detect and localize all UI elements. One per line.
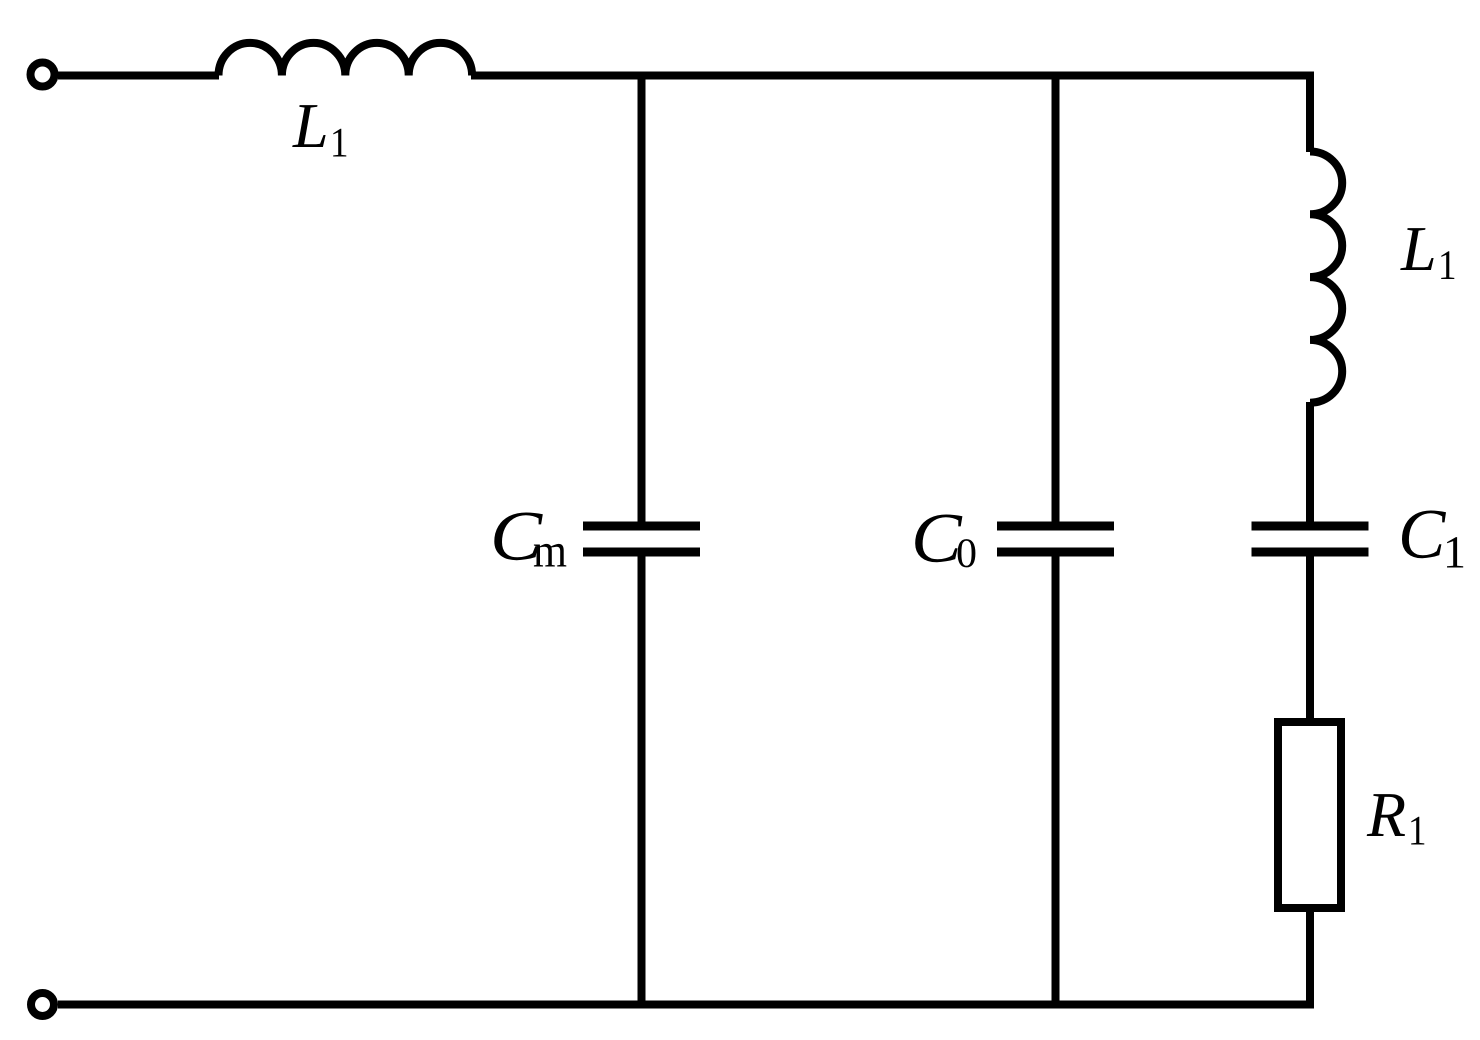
- inductor L1 (right, vertical): [1310, 152, 1342, 403]
- wire right branch lower: [1306, 908, 1314, 1008]
- wire right branch mid1: [1306, 402, 1314, 526]
- label C0: [915, 515, 962, 563]
- wire top-left segment: [58, 72, 219, 80]
- label L1 (right): [1400, 228, 1433, 270]
- resistor R1: [1278, 722, 1341, 908]
- wire right branch mid2: [1306, 552, 1314, 722]
- terminal bottom-left: [31, 993, 54, 1016]
- capacitor C0: [997, 526, 1114, 552]
- wire Cm branch upper: [638, 72, 646, 527]
- wire bottom: [58, 1001, 1314, 1009]
- capacitor C1: [1252, 526, 1369, 552]
- wire top-right segment: [471, 72, 1314, 80]
- label Cm: [494, 513, 543, 561]
- label R1: [1367, 794, 1405, 836]
- wire right branch upper: [1310, 76, 1314, 153]
- inductor L1 (top, horizontal): [219, 43, 473, 76]
- label L1 (top): [292, 105, 325, 147]
- terminal top-left: [31, 63, 55, 87]
- wire C0 branch lower: [1052, 552, 1060, 1008]
- wire C0 branch upper: [1052, 72, 1060, 527]
- capacitor Cm: [583, 526, 700, 552]
- wire Cm branch lower: [638, 552, 646, 1008]
- label C1: [1402, 511, 1446, 559]
